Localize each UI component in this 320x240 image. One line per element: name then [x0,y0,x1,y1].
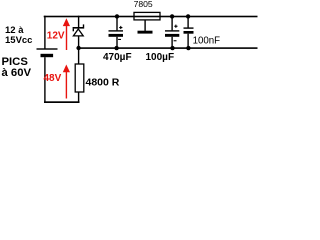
wire regulator ground pin [144,20,145,31]
wire zener bottom lead [78,36,79,48]
svg-text:4800 R: 4800 R [86,77,120,89]
zener diode D1 triangle [73,29,83,36]
wire C2 bottom lead [171,37,172,48]
wire C2 top lead [171,16,172,30]
label PICS à 60V [2,56,32,79]
node junction C3 bottom [186,46,190,50]
resistor R1 body [75,64,84,92]
wire bottom rail [44,101,80,103]
zener diode D1 cathode bar [73,24,85,31]
battery BT1 negative plate [41,54,54,57]
label 470µF [103,52,132,63]
capacitor C2 100µF plates [165,30,179,37]
node junction zener / resistor / middle rail [76,46,80,50]
node junction C3 top [186,14,190,18]
capacitor C1 470µF plates [109,30,124,37]
annotation arrow 48V [63,65,70,99]
wire C3 bottom lead [187,34,188,48]
label 48V [44,73,62,84]
svg-text:100nF: 100nF [193,36,221,47]
svg-text:100µF: 100µF [146,52,175,63]
label 12 à 15Vcc [5,25,32,46]
wire top rail (+) [44,16,258,18]
regulator ground tab bar [138,31,153,34]
svg-text:PICS: PICS [2,56,29,68]
capacitor C1 polarity marks [118,26,122,40]
wire resistor bottom lead [78,92,79,102]
node junction C1 bottom [114,46,118,50]
wire C1 top lead [116,16,117,30]
svg-text:48V: 48V [44,73,62,84]
node junction C2 top [170,14,174,18]
svg-text:7805: 7805 [134,0,153,9]
wire battery negative lead [44,57,45,102]
svg-text:à 60V: à 60V [2,67,32,79]
wire middle rail (0V) [77,47,258,49]
annotation arrow 12V [63,18,70,50]
svg-text:15Vcc: 15Vcc [5,35,32,46]
label 4800 R [86,77,120,89]
label 12V [47,30,65,41]
wire resistor top lead [78,48,79,64]
label 100nF [193,36,221,47]
label 100µF [146,52,175,63]
label 7805 [134,0,153,9]
regulator U1 7805 body [134,12,160,20]
svg-text:12V: 12V [47,30,65,41]
wire C3 top lead [187,16,188,28]
node junction C2 bottom [170,46,174,50]
wire C1 bottom lead [116,37,117,48]
wire battery positive lead [44,16,45,49]
svg-text:470µF: 470µF [103,52,132,63]
node junction C1 top [115,14,119,18]
battery BT1 positive plate [37,48,58,49]
capacitor C3 100nF plates [184,27,194,33]
capacitor C2 polarity marks [174,25,178,42]
wire zener top lead [78,16,79,28]
